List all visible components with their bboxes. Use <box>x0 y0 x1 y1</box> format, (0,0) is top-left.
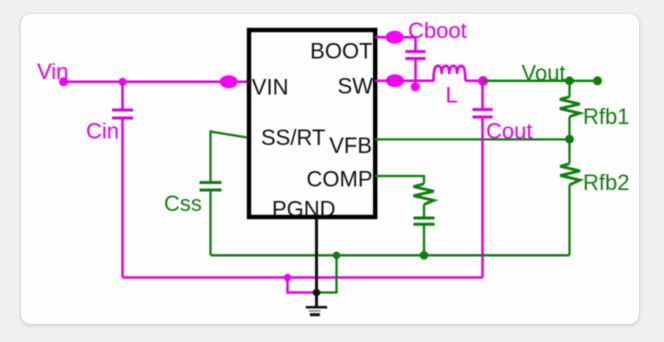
terminal dot Vin <box>59 77 68 86</box>
svg-text:Cboot: Cboot <box>408 18 467 43</box>
label Cout <box>486 119 532 144</box>
pin label SS/RT <box>261 125 325 150</box>
resistor R1 Rfb1 <box>560 81 580 139</box>
junction SW/Cboot <box>411 82 420 91</box>
label Rfb1 <box>583 104 629 129</box>
svg-text:BOOT: BOOT <box>310 39 372 64</box>
label Css <box>164 191 202 216</box>
svg-text:PGND: PGND <box>272 197 336 222</box>
svg-text:SS/RT: SS/RT <box>261 125 325 150</box>
pin terminal VIN (oval) <box>220 75 238 88</box>
wire BOOT pin stub <box>375 36 386 39</box>
capacitor C1 Cin <box>112 82 133 278</box>
label Rfb2 <box>583 170 629 195</box>
wire SW to inductor <box>375 79 434 82</box>
wire Vin to VIN pin <box>64 81 248 84</box>
inductor L1 <box>434 66 466 81</box>
junction L output node <box>478 76 488 86</box>
wire BOOT to Cboot <box>403 37 416 51</box>
label L <box>446 83 458 108</box>
resistor R2 Rfb2 <box>560 139 580 255</box>
IC U1 box <box>249 30 375 217</box>
capacitor C4 comp <box>414 204 435 255</box>
svg-text:Cin: Cin <box>86 119 119 144</box>
junction Vout/Rfb1 <box>565 76 574 85</box>
svg-text:Vout: Vout <box>522 61 566 86</box>
junction Cin top <box>119 78 127 86</box>
pin label VIN <box>252 75 289 100</box>
resistor R3 comp <box>414 184 434 205</box>
wire COMP pin <box>375 176 424 184</box>
junction magenta rail to ground branch <box>284 274 292 282</box>
svg-text:Rfb1: Rfb1 <box>583 104 629 129</box>
wire green ground branch <box>317 255 337 292</box>
capacitor C3 Cout <box>473 81 493 278</box>
node Vin label <box>37 59 68 84</box>
node Vout label <box>522 61 566 86</box>
capacitor C2 Cboot <box>405 52 425 59</box>
wire output node to Vout <box>483 80 598 82</box>
svg-text:SW: SW <box>338 74 374 99</box>
capacitor C5 Css <box>200 183 222 256</box>
pin label COMP <box>307 167 373 192</box>
svg-text:VIN: VIN <box>252 75 289 100</box>
svg-text:VFB: VFB <box>329 133 372 158</box>
pin label SW <box>338 74 374 99</box>
label Cin <box>86 119 119 144</box>
junction VFB node <box>565 135 574 144</box>
pin label PGND <box>272 197 336 222</box>
junction green rail ground branch <box>333 252 341 260</box>
wire magenta ground rail <box>123 276 483 279</box>
label Cboot <box>408 18 467 43</box>
svg-text:COMP: COMP <box>307 167 373 192</box>
junction comp network to green rail <box>420 251 429 260</box>
wire Cboot to SW node <box>414 59 417 87</box>
junction ground node <box>313 289 321 297</box>
wire VFB <box>375 138 570 140</box>
svg-text:Rfb2: Rfb2 <box>583 170 629 195</box>
wire PGND pin <box>315 217 318 307</box>
pin label BOOT <box>310 39 372 64</box>
svg-text:L: L <box>446 83 458 108</box>
wire magenta ground branch <box>288 278 317 293</box>
wire SS/RT to Css <box>211 132 248 183</box>
ground <box>306 307 327 314</box>
pin terminal BOOT (oval) <box>386 31 404 44</box>
svg-text:Css: Css <box>164 191 202 216</box>
wire green ground rail <box>211 254 570 256</box>
terminal dot Vout <box>593 76 602 85</box>
pin label VFB <box>329 133 372 158</box>
wire inductor to output node <box>465 80 483 83</box>
svg-text:Cout: Cout <box>486 119 532 144</box>
pin terminal SW (oval) <box>386 74 404 87</box>
